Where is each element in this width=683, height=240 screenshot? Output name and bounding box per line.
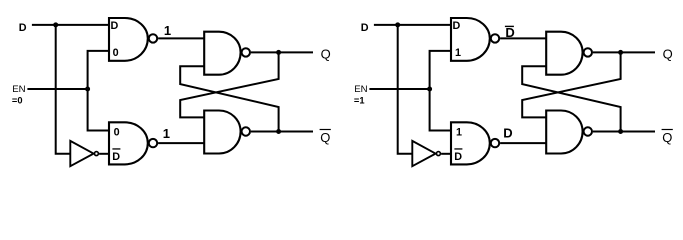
NAND gate G7 bbox=[546, 32, 582, 75]
svg-text:D: D bbox=[503, 126, 512, 141]
junction on EN wire bbox=[427, 87, 432, 92]
overline of Q-bar output label bbox=[320, 129, 331, 130]
NAND gate G4 bbox=[204, 111, 240, 154]
output bubble of G1 bbox=[149, 34, 157, 42]
svg-text:EN: EN bbox=[354, 84, 367, 95]
overline of D-bar label in G6 bbox=[454, 148, 462, 149]
svg-text:Q: Q bbox=[662, 130, 672, 145]
junction on Q wire bbox=[618, 50, 623, 55]
svg-text:Q: Q bbox=[320, 130, 330, 145]
NAND gate G2 bbox=[109, 122, 148, 164]
junction on EN wire bbox=[85, 87, 90, 92]
wire feedback Q to bottom latch gate input bbox=[180, 52, 278, 117]
wire feedback Q to bottom latch gate input bbox=[522, 52, 620, 117]
wire D input to gate top input bbox=[374, 24, 451, 26]
wire inverter output to gate D-bar input bbox=[441, 153, 451, 155]
wire inverter output to gate D-bar input bbox=[99, 153, 109, 155]
svg-text:D: D bbox=[112, 151, 120, 163]
output bubble of G5 bbox=[491, 34, 499, 42]
NAND gate G5 bbox=[451, 18, 490, 61]
wire D branch down to inverter input bbox=[398, 25, 413, 154]
wire D branch down to inverter input bbox=[56, 25, 71, 154]
svg-text:=1: =1 bbox=[354, 96, 365, 106]
wire Q output bbox=[593, 51, 655, 53]
svg-text:1: 1 bbox=[163, 126, 170, 141]
junction on D wire bbox=[395, 22, 400, 27]
wire G1 output to latch top gate input bbox=[158, 37, 204, 39]
wire G2 output to latch bottom gate input bbox=[500, 142, 546, 144]
wire D input to gate top input bbox=[32, 24, 109, 26]
wire G2 output to latch bottom gate input bbox=[158, 142, 204, 144]
NAND gate G8 bbox=[546, 111, 582, 154]
inverter output bubble bbox=[94, 152, 98, 156]
wire feedback Q-bar to top latch gate input bbox=[522, 66, 620, 131]
output bubble of G2 bbox=[149, 139, 157, 147]
junction on Q-bar wire bbox=[618, 129, 623, 134]
inverter (D to D-bar) bbox=[70, 141, 93, 166]
svg-text:D: D bbox=[454, 151, 462, 163]
junction on D wire bbox=[53, 22, 58, 27]
svg-text:D: D bbox=[453, 20, 461, 32]
NAND gate G6 bbox=[451, 122, 490, 164]
wire EN branch to both stage-1 gate inputs bbox=[430, 51, 451, 131]
svg-text:0: 0 bbox=[113, 47, 119, 59]
svg-text:D: D bbox=[111, 20, 119, 32]
output bubble of G3 bbox=[242, 48, 250, 56]
wire feedback Q-bar to top latch gate input bbox=[180, 66, 278, 131]
svg-text:Q: Q bbox=[321, 46, 331, 61]
svg-text:1: 1 bbox=[455, 47, 461, 59]
output bubble of G7 bbox=[584, 48, 592, 56]
wire EN input bbox=[27, 88, 87, 90]
output bubble of G8 bbox=[584, 127, 592, 135]
overline of D-bar label in G2 bbox=[112, 148, 120, 149]
junction on Q wire bbox=[276, 50, 281, 55]
NAND gate G1 bbox=[109, 18, 148, 61]
svg-text:1: 1 bbox=[164, 23, 171, 38]
overline of D-bar label on G5 output bbox=[505, 26, 514, 27]
svg-text:D: D bbox=[19, 22, 27, 34]
NAND gate G3 bbox=[204, 32, 240, 75]
svg-text:Q: Q bbox=[663, 46, 673, 61]
wire EN branch to both stage-1 gate inputs bbox=[88, 51, 109, 131]
inverter output bubble bbox=[436, 152, 440, 156]
svg-text:1: 1 bbox=[456, 126, 462, 138]
wire Q-bar output bbox=[593, 131, 655, 133]
inverter (D to D-bar) bbox=[412, 141, 435, 166]
svg-text:EN: EN bbox=[12, 84, 25, 95]
wire EN input bbox=[369, 88, 429, 90]
svg-text:=0: =0 bbox=[12, 96, 23, 106]
wire G1 output to latch top gate input bbox=[500, 37, 546, 39]
svg-text:0: 0 bbox=[114, 126, 120, 138]
overline of Q-bar output label bbox=[662, 129, 673, 130]
svg-text:D: D bbox=[361, 22, 369, 34]
wire Q output bbox=[251, 51, 313, 53]
output bubble of G6 bbox=[491, 139, 499, 147]
wire Q-bar output bbox=[251, 131, 313, 133]
junction on Q-bar wire bbox=[276, 129, 281, 134]
output bubble of G4 bbox=[242, 127, 250, 135]
